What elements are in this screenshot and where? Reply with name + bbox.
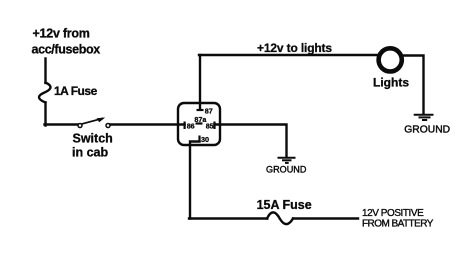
svg-text:+12v from: +12v from <box>33 26 90 40</box>
svg-text:30: 30 <box>201 135 209 144</box>
svg-text:86: 86 <box>187 122 195 131</box>
svg-text:Lights: Lights <box>373 76 409 90</box>
svg-text:+12v to lights: +12v to lights <box>257 41 332 55</box>
svg-text:GROUND: GROUND <box>404 124 450 135</box>
svg-text:FROM BATTERY: FROM BATTERY <box>362 218 434 229</box>
svg-text:GROUND: GROUND <box>266 165 307 175</box>
svg-text:12V POSITIVE: 12V POSITIVE <box>362 208 424 219</box>
svg-text:in cab: in cab <box>72 146 108 160</box>
svg-text:85: 85 <box>206 122 214 131</box>
svg-text:1A Fuse: 1A Fuse <box>54 84 98 98</box>
svg-text:15A Fuse: 15A Fuse <box>257 198 312 212</box>
svg-text:Switch: Switch <box>73 131 113 145</box>
svg-text:acc/fusebox: acc/fusebox <box>32 42 101 56</box>
